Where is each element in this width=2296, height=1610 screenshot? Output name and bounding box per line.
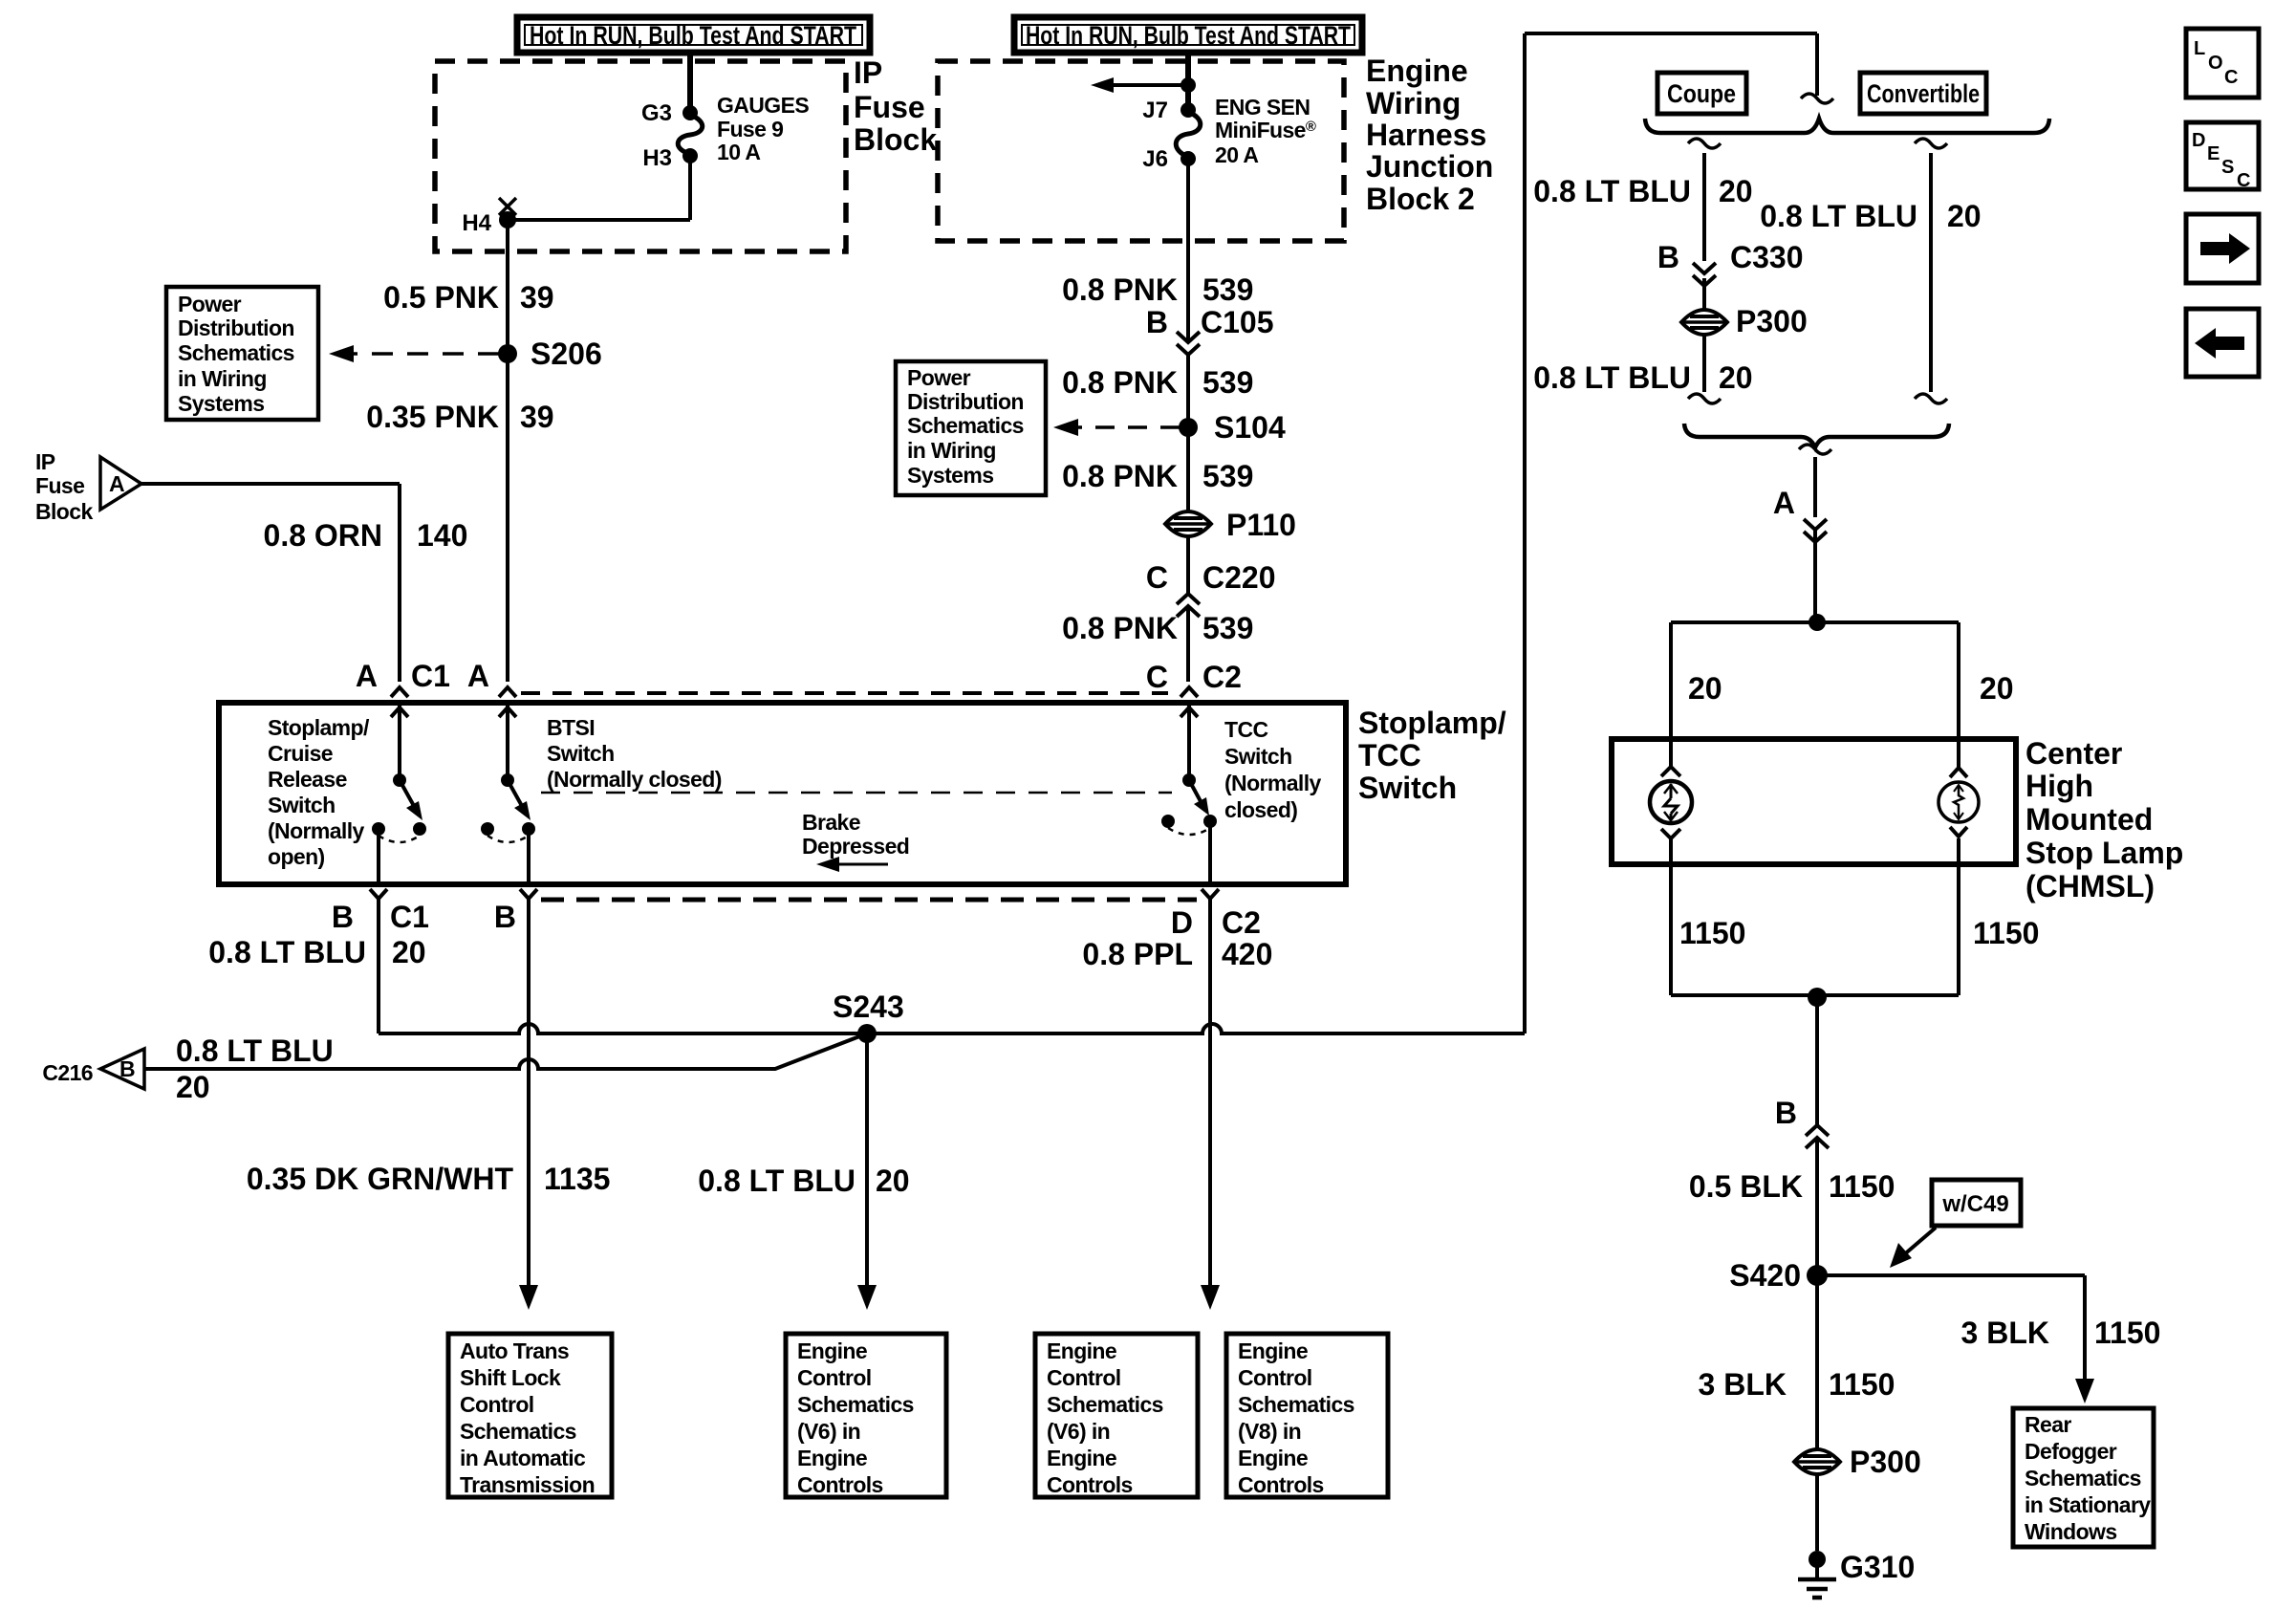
- svg-text:0.8 LT BLU: 0.8 LT BLU: [1760, 199, 1917, 233]
- svg-text:D: D: [2192, 130, 2205, 151]
- svg-text:Switch: Switch: [268, 793, 336, 817]
- svg-text:C105: C105: [1201, 305, 1274, 339]
- svg-text:Schematics: Schematics: [1047, 1392, 1163, 1417]
- svg-text:Switch: Switch: [547, 741, 615, 766]
- svg-text:Schematics: Schematics: [1238, 1392, 1354, 1417]
- svg-text:Mounted: Mounted: [2025, 802, 2153, 837]
- svg-text:Stoplamp/: Stoplamp/: [1358, 706, 1506, 740]
- svg-text:Block: Block: [854, 122, 937, 157]
- svg-text:1150: 1150: [1679, 916, 1745, 950]
- svg-text:J7: J7: [1142, 98, 1168, 123]
- svg-text:ENG SEN: ENG SEN: [1215, 95, 1310, 120]
- svg-text:B: B: [332, 900, 354, 934]
- svg-text:open): open): [268, 844, 325, 869]
- svg-text:539: 539: [1202, 272, 1253, 307]
- svg-text:10 A: 10 A: [717, 140, 760, 164]
- svg-text:539: 539: [1202, 365, 1253, 400]
- svg-text:C: C: [2237, 170, 2250, 191]
- svg-text:0.8 LT BLU: 0.8 LT BLU: [208, 935, 366, 969]
- svg-text:0.8 PPL: 0.8 PPL: [1082, 937, 1193, 971]
- svg-text:Switch: Switch: [1358, 771, 1457, 805]
- svg-text:0.8 LT BLU: 0.8 LT BLU: [1533, 174, 1691, 208]
- svg-text:539: 539: [1202, 611, 1253, 645]
- svg-text:Engine: Engine: [797, 1446, 867, 1470]
- svg-text:TCC: TCC: [1358, 738, 1421, 772]
- svg-text:Release: Release: [268, 767, 347, 792]
- svg-text:Control: Control: [1047, 1365, 1121, 1390]
- svg-text:Harness: Harness: [1366, 118, 1486, 152]
- svg-text:Controls: Controls: [1238, 1472, 1324, 1497]
- svg-text:Coupe: Coupe: [1667, 79, 1736, 108]
- svg-text:S104: S104: [1214, 410, 1286, 445]
- svg-text:Junction: Junction: [1366, 149, 1493, 184]
- svg-text:S206: S206: [531, 337, 602, 371]
- svg-text:1135: 1135: [544, 1162, 610, 1196]
- svg-text:(V8) in: (V8) in: [1238, 1419, 1301, 1444]
- svg-text:B: B: [1146, 305, 1168, 339]
- svg-text:Schematics: Schematics: [907, 413, 1024, 438]
- svg-text:C220: C220: [1202, 560, 1276, 595]
- svg-text:TCC: TCC: [1224, 717, 1267, 742]
- svg-text:O: O: [2208, 53, 2223, 74]
- svg-text:B: B: [119, 1056, 135, 1081]
- svg-text:P300: P300: [1736, 304, 1808, 338]
- svg-text:0.8 PNK: 0.8 PNK: [1062, 365, 1178, 400]
- svg-text:S243: S243: [833, 990, 904, 1024]
- svg-text:0.5 BLK: 0.5 BLK: [1689, 1169, 1803, 1204]
- svg-text:P110: P110: [1226, 508, 1296, 542]
- svg-text:(Normally: (Normally: [1224, 771, 1321, 795]
- svg-text:Fuse: Fuse: [35, 473, 84, 498]
- svg-text:Defogger: Defogger: [2025, 1439, 2117, 1464]
- svg-text:39: 39: [520, 400, 554, 434]
- svg-text:B: B: [1657, 240, 1679, 274]
- svg-text:C: C: [1146, 560, 1168, 595]
- svg-text:Stop Lamp: Stop Lamp: [2025, 836, 2183, 870]
- svg-text:BTSI: BTSI: [547, 715, 595, 740]
- svg-text:1150: 1150: [1973, 916, 2039, 950]
- svg-text:Control: Control: [460, 1392, 534, 1417]
- svg-text:Systems: Systems: [907, 463, 993, 488]
- svg-text:(V6) in: (V6) in: [797, 1419, 860, 1444]
- svg-text:in Wiring: in Wiring: [178, 366, 267, 391]
- svg-text:Wiring: Wiring: [1366, 86, 1461, 120]
- svg-text:w/C49: w/C49: [1941, 1191, 2008, 1217]
- svg-text:C330: C330: [1730, 240, 1804, 274]
- svg-text:Engine: Engine: [797, 1338, 867, 1363]
- svg-text:B: B: [1775, 1096, 1797, 1130]
- svg-text:in Wiring: in Wiring: [907, 438, 996, 463]
- svg-text:0.8 ORN: 0.8 ORN: [264, 518, 382, 553]
- svg-text:High: High: [2025, 769, 2093, 803]
- svg-text:GAUGES: GAUGES: [717, 93, 809, 118]
- svg-text:Distribution: Distribution: [907, 389, 1024, 414]
- svg-text:Block 2: Block 2: [1366, 182, 1475, 216]
- svg-text:C: C: [1146, 660, 1168, 694]
- svg-text:20 A: 20 A: [1215, 142, 1258, 167]
- svg-text:Control: Control: [1238, 1365, 1312, 1390]
- svg-text:Fuse 9: Fuse 9: [717, 117, 783, 141]
- svg-text:in Automatic: in Automatic: [460, 1446, 586, 1470]
- svg-text:1150: 1150: [1829, 1367, 1895, 1402]
- svg-text:20: 20: [392, 935, 426, 969]
- svg-text:20: 20: [876, 1164, 910, 1198]
- svg-text:1150: 1150: [1829, 1169, 1895, 1204]
- svg-text:A: A: [467, 659, 489, 693]
- svg-text:Brake: Brake: [802, 810, 860, 835]
- svg-text:Schematics: Schematics: [178, 340, 294, 365]
- svg-text:Distribution: Distribution: [178, 315, 294, 340]
- svg-text:0.8 LT BLU: 0.8 LT BLU: [1533, 360, 1691, 395]
- svg-text:Engine: Engine: [1366, 54, 1468, 88]
- svg-text:Cruise: Cruise: [268, 741, 333, 766]
- svg-text:J6: J6: [1142, 146, 1168, 172]
- svg-text:Block: Block: [35, 499, 93, 524]
- svg-text:S420: S420: [1729, 1258, 1801, 1293]
- svg-text:3 BLK: 3 BLK: [1961, 1316, 2049, 1350]
- svg-text:Schematics: Schematics: [460, 1419, 576, 1444]
- svg-text:P300: P300: [1850, 1445, 1921, 1479]
- svg-text:Hot In RUN, Bulb Test And STAR: Hot In RUN, Bulb Test And START: [1026, 21, 1351, 50]
- svg-text:(Normally: (Normally: [268, 818, 364, 843]
- svg-text:20: 20: [1980, 671, 2014, 706]
- svg-text:0.8 LT BLU: 0.8 LT BLU: [698, 1164, 856, 1198]
- svg-text:C2: C2: [1202, 660, 1242, 694]
- svg-text:D: D: [1171, 905, 1193, 940]
- svg-text:0.35 PNK: 0.35 PNK: [366, 400, 499, 434]
- svg-text:Depressed: Depressed: [802, 834, 909, 859]
- svg-text:Controls: Controls: [1047, 1472, 1133, 1497]
- svg-text:20: 20: [1719, 360, 1753, 395]
- svg-text:C1: C1: [411, 659, 450, 693]
- svg-text:(Normally closed): (Normally closed): [547, 767, 722, 792]
- svg-text:closed): closed): [1224, 797, 1297, 822]
- svg-text:Fuse: Fuse: [854, 90, 925, 124]
- svg-text:0.5 PNK: 0.5 PNK: [383, 280, 499, 315]
- svg-text:Control: Control: [797, 1365, 872, 1390]
- svg-text:0.8 LT BLU: 0.8 LT BLU: [176, 1033, 334, 1068]
- svg-text:20: 20: [1947, 199, 1982, 233]
- svg-text:Schematics: Schematics: [2025, 1466, 2141, 1490]
- svg-text:S: S: [2221, 157, 2234, 178]
- svg-text:H4: H4: [462, 210, 491, 236]
- svg-text:IP: IP: [35, 449, 55, 474]
- svg-text:C: C: [2224, 67, 2238, 88]
- svg-text:Transmission: Transmission: [460, 1472, 595, 1497]
- svg-text:Auto Trans: Auto Trans: [460, 1338, 569, 1363]
- svg-text:A: A: [109, 471, 124, 496]
- svg-text:C216: C216: [42, 1060, 93, 1085]
- svg-text:0.8 PNK: 0.8 PNK: [1062, 272, 1178, 307]
- svg-text:IP: IP: [854, 55, 882, 90]
- svg-text:20: 20: [1719, 174, 1753, 208]
- svg-text:20: 20: [1688, 671, 1722, 706]
- svg-text:3 BLK: 3 BLK: [1699, 1367, 1787, 1402]
- svg-text:0.8 PNK: 0.8 PNK: [1062, 611, 1178, 645]
- svg-text:Engine: Engine: [1238, 1338, 1308, 1363]
- svg-text:in Stationary: in Stationary: [2025, 1492, 2151, 1517]
- svg-text:Systems: Systems: [178, 391, 264, 416]
- svg-text:MiniFuse®: MiniFuse®: [1215, 118, 1316, 142]
- svg-text:C1: C1: [390, 900, 429, 934]
- svg-text:A: A: [356, 659, 378, 693]
- svg-text:Switch: Switch: [1224, 744, 1292, 769]
- svg-text:420: 420: [1222, 937, 1272, 971]
- svg-text:Rear: Rear: [2025, 1412, 2071, 1437]
- svg-text:Convertible: Convertible: [1867, 79, 1980, 108]
- svg-text:Shift Lock: Shift Lock: [460, 1365, 561, 1390]
- svg-text:20: 20: [176, 1070, 210, 1104]
- svg-text:(CHMSL): (CHMSL): [2025, 869, 2155, 903]
- svg-text:Hot In RUN, Bulb Test And STAR: Hot In RUN, Bulb Test And START: [530, 21, 856, 50]
- svg-text:B: B: [494, 900, 516, 934]
- svg-text:Engine: Engine: [1047, 1338, 1116, 1363]
- svg-text:Engine: Engine: [1238, 1446, 1308, 1470]
- svg-text:539: 539: [1202, 459, 1253, 493]
- svg-text:G3: G3: [641, 100, 672, 126]
- svg-text:Power: Power: [178, 292, 242, 316]
- svg-text:1150: 1150: [2094, 1316, 2160, 1350]
- svg-text:A: A: [1773, 486, 1795, 520]
- svg-text:Stoplamp/: Stoplamp/: [268, 715, 370, 740]
- svg-text:(V6) in: (V6) in: [1047, 1419, 1110, 1444]
- svg-text:Schematics: Schematics: [797, 1392, 914, 1417]
- svg-text:Windows: Windows: [2025, 1519, 2117, 1544]
- svg-text:L: L: [2194, 38, 2205, 59]
- svg-text:Engine: Engine: [1047, 1446, 1116, 1470]
- svg-text:E: E: [2207, 143, 2220, 164]
- svg-text:Controls: Controls: [797, 1472, 883, 1497]
- svg-text:140: 140: [417, 518, 467, 553]
- svg-text:Center: Center: [2025, 736, 2122, 771]
- svg-text:Power: Power: [907, 365, 971, 390]
- svg-text:0.8 PNK: 0.8 PNK: [1062, 459, 1178, 493]
- svg-text:H3: H3: [642, 145, 672, 171]
- svg-text:C2: C2: [1222, 905, 1261, 940]
- svg-text:39: 39: [520, 280, 554, 315]
- svg-text:G310: G310: [1840, 1550, 1915, 1584]
- svg-text:0.35 DK GRN/WHT: 0.35 DK GRN/WHT: [247, 1162, 514, 1196]
